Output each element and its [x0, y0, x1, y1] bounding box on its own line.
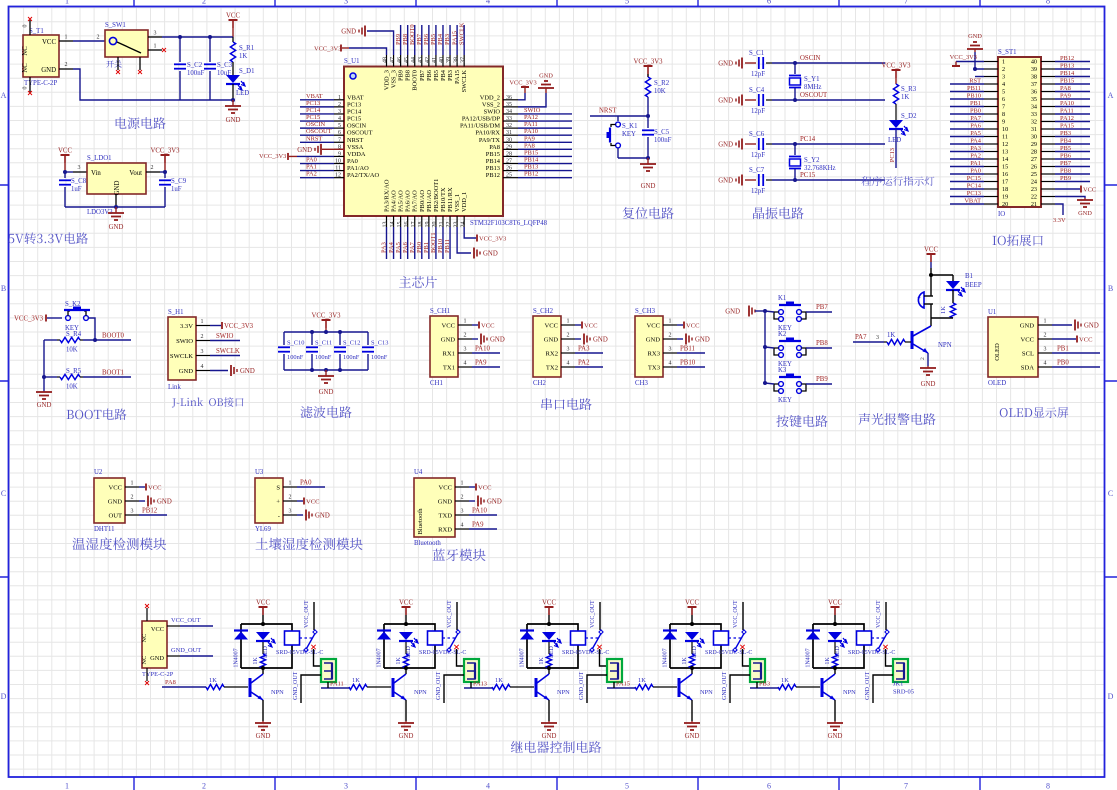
svg-text:2: 2	[567, 333, 570, 339]
svg-text:B: B	[1, 284, 6, 293]
svg-text:PC15: PC15	[800, 172, 816, 179]
svg-text:NRST: NRST	[306, 135, 322, 142]
relay LED resistor 1K (relay unit 4)	[691, 642, 693, 654]
display U1 OLED body	[988, 317, 1038, 377]
svg-text:PB13: PB13	[524, 164, 538, 171]
svg-text:GND_OUT: GND_OUT	[579, 671, 585, 700]
S_T1 pin 1 VCC stub	[59, 40, 73, 42]
svg-text:42: 42	[425, 57, 431, 63]
VCC power port (relay unit 3)	[545, 606, 554, 608]
alarm top rail	[931, 274, 953, 276]
svg-text:8: 8	[1002, 111, 1005, 118]
svg-text:PA6/AO: PA6/AO	[405, 190, 412, 212]
svg-text:S_ST1: S_ST1	[998, 49, 1017, 56]
svg-text:VCC: VCC	[42, 39, 56, 46]
svg-text:GND: GND	[718, 61, 733, 68]
svg-text:30: 30	[1031, 134, 1037, 141]
svg-text:VCC: VCC	[306, 499, 320, 506]
emitter ground (relay unit 2)	[405, 700, 407, 721]
svg-text:46: 46	[397, 57, 403, 63]
transistor NPN (relay unit 5)	[834, 668, 836, 674]
svg-text:PA10: PA10	[472, 508, 487, 515]
svg-text:VCC_3V3: VCC_3V3	[150, 148, 180, 155]
svg-text:S_CH2: S_CH2	[533, 308, 554, 315]
svg-text:GND: GND	[544, 336, 559, 343]
svg-text:S_C6: S_C6	[749, 131, 765, 138]
svg-text:PB2/BOOT1: PB2/BOOT1	[433, 179, 440, 212]
svg-text:PA0: PA0	[300, 480, 312, 487]
svg-text:PB12: PB12	[524, 171, 538, 178]
snubber bracket rails (relay unit 2)	[384, 624, 435, 668]
svg-text:SWIO: SWIO	[524, 107, 541, 114]
capacitor S_C10 100nF	[283, 332, 285, 345]
svg-text:PB1: PB1	[423, 242, 430, 253]
svg-text:VCC: VCC	[544, 322, 558, 329]
svg-text:S_K2: S_K2	[65, 301, 81, 308]
svg-text:GND: GND	[718, 178, 733, 185]
svg-text:PB11: PB11	[444, 239, 451, 253]
svg-text:BOOT1: BOOT1	[102, 370, 124, 377]
PA15 net label wire to next relay base	[607, 687, 635, 689]
relay switch blade (relay unit 4)	[742, 602, 744, 630]
svg-text:S_R5: S_R5	[66, 368, 82, 375]
caption soil moisture module	[256, 537, 363, 550]
svg-text:OLED: OLED	[988, 380, 1006, 387]
svg-text:1K: 1K	[396, 657, 402, 665]
svg-text:PA6: PA6	[970, 123, 981, 130]
svg-text:VBAT: VBAT	[306, 93, 323, 100]
svg-text:VCC_OUT: VCC_OUT	[304, 600, 310, 628]
svg-text:VBAT: VBAT	[964, 198, 981, 205]
svg-text:20: 20	[1002, 201, 1008, 208]
svg-text:VCC: VCC	[108, 484, 122, 491]
svg-text:PA15: PA15	[616, 681, 630, 688]
S_H1 pin 4 GND tag	[210, 370, 228, 372]
svg-text:PA0: PA0	[306, 157, 317, 164]
svg-text:2: 2	[65, 62, 68, 68]
S_SW1 bottom stubs with no-connect	[117, 57, 119, 70]
svg-text:PA1/AO: PA1/AO	[347, 165, 369, 172]
svg-text:19: 19	[1002, 194, 1008, 201]
svg-text:32: 32	[506, 123, 512, 129]
K2 net label wire PB8	[806, 347, 832, 349]
VSS_3 to GND tag wire	[367, 31, 394, 55]
svg-text:K3: K3	[778, 367, 787, 374]
S_H1 pin stubs	[196, 325, 210, 327]
svg-text:26: 26	[506, 166, 512, 172]
relay TYPE-C top pin no-connect	[146, 608, 148, 621]
svg-text:S_LDO1: S_LDO1	[87, 155, 112, 162]
svg-text:VCC: VCC	[685, 600, 699, 607]
svg-text:S_T1: S_T1	[29, 28, 44, 35]
svg-text:1K: 1K	[638, 677, 646, 684]
svg-text:4: 4	[486, 782, 490, 790]
svg-text:OSCOUT: OSCOUT	[306, 128, 332, 135]
relay coil SRD-05VDC-SL-C (relay unit 5)	[857, 631, 872, 645]
U4 pin 4 net PA9	[469, 528, 497, 530]
svg-text:27: 27	[506, 159, 512, 165]
svg-text:BEEP: BEEP	[965, 282, 982, 289]
relay LED (relay unit 2)	[399, 632, 413, 640]
svg-text:OSCIN: OSCIN	[306, 121, 326, 128]
svg-text:Vin: Vin	[91, 170, 101, 177]
svg-text:PA11/USB/DM: PA11/USB/DM	[460, 123, 500, 130]
OLED pin 4 PB0 label wire	[1052, 366, 1100, 368]
svg-text:PC15: PC15	[347, 116, 361, 123]
svg-text:VSS_1: VSS_1	[454, 194, 461, 212]
svg-text:SRD-05VDC-SL-C: SRD-05VDC-SL-C	[276, 650, 323, 656]
svg-text:SRD-05VDC-SL-C: SRD-05VDC-SL-C	[705, 650, 752, 656]
svg-text:Bluetooth: Bluetooth	[417, 508, 424, 535]
terminal lower wire and GND_OUT (relay unit 4)	[730, 675, 750, 703]
module U3 body	[255, 478, 283, 523]
VCC power port (relay unit 1)	[259, 606, 268, 608]
S_H1 pin 1 VCC_3V3	[210, 325, 221, 327]
svg-text:PB9: PB9	[816, 376, 828, 383]
svg-text:100nF: 100nF	[343, 354, 360, 361]
svg-text:PA7: PA7	[409, 241, 416, 253]
svg-text:1: 1	[131, 481, 134, 487]
svg-text:10: 10	[335, 159, 341, 165]
resistor S_R2 10K	[647, 74, 649, 77]
svg-text:VCC_OUT: VCC_OUT	[447, 600, 453, 628]
svg-text:NRST: NRST	[599, 108, 617, 115]
svg-text:GND_OUT: GND_OUT	[171, 647, 201, 654]
U3 pin 1 net PA0	[297, 486, 325, 488]
svg-text:RST: RST	[969, 78, 981, 85]
wire Vout to VCC_3V3	[160, 171, 165, 173]
svg-text:GND_OUT: GND_OUT	[293, 671, 299, 700]
svg-text:15: 15	[1002, 164, 1008, 171]
MCU S_U1 STM32F103C8T6 body	[344, 67, 503, 217]
CH1 RX net label wire	[472, 352, 500, 354]
svg-text:1: 1	[289, 481, 292, 487]
svg-text:CH2: CH2	[533, 380, 546, 387]
svg-text:GND: GND	[483, 251, 498, 258]
relay coil SRD-05VDC-SL-C (relay unit 1)	[285, 631, 300, 645]
svg-text:12pF: 12pF	[751, 152, 765, 159]
svg-text:21: 21	[439, 222, 445, 228]
svg-text:1: 1	[1044, 319, 1047, 325]
MCU bottom pins 13-24	[386, 216, 388, 227]
base resistor 1K (relay unit 5)	[778, 684, 796, 689]
svg-text:Vout: Vout	[129, 170, 142, 177]
svg-text:7: 7	[904, 782, 908, 790]
svg-text:PA5/AO: PA5/AO	[398, 190, 405, 212]
relay LED resistor 1K (relay unit 5)	[834, 642, 836, 654]
svg-text:RX2: RX2	[546, 350, 558, 357]
svg-text:1: 1	[669, 319, 672, 325]
svg-text:1N4007: 1N4007	[806, 648, 812, 667]
svg-text:1: 1	[338, 95, 341, 101]
svg-text:4: 4	[201, 364, 204, 370]
VSS_2 to GND earth (inverted)	[518, 93, 546, 107]
svg-text:3: 3	[289, 509, 292, 515]
svg-text:1K: 1K	[901, 94, 909, 101]
terminal lower wire and GND_OUT (relay unit 2)	[444, 675, 464, 703]
svg-text:U4: U4	[414, 469, 423, 476]
terminal lower wire and GND_OUT (relay unit 1)	[301, 675, 321, 703]
svg-text:22: 22	[1031, 194, 1037, 201]
svg-text:PA5: PA5	[395, 242, 402, 253]
svg-text:31: 31	[506, 130, 512, 136]
svg-text:GND: GND	[718, 142, 733, 149]
svg-text:S_D2: S_D2	[901, 113, 917, 120]
snubber bracket rails (relay unit 4)	[670, 624, 721, 668]
svg-text:SWIO: SWIO	[484, 108, 501, 115]
VCC power port alarm	[927, 253, 936, 255]
svg-text:1K: 1K	[539, 657, 545, 665]
alarm bottom rail	[931, 317, 953, 319]
svg-text:100nF: 100nF	[187, 70, 205, 77]
relay LED resistor 1K (relay unit 1)	[262, 642, 264, 654]
wire T1 GND down to bottom rail	[73, 69, 233, 100]
svg-text:OLED: OLED	[994, 343, 1001, 361]
svg-text:PA3: PA3	[970, 145, 981, 152]
svg-text:PB6: PB6	[426, 70, 433, 81]
MCU top net wires and labels	[400, 25, 402, 55]
svg-text:SWCLK: SWCLK	[170, 353, 193, 360]
svg-text:1N4007: 1N4007	[377, 648, 383, 667]
svg-text:VDD_3: VDD_3	[384, 70, 391, 90]
svg-text:0: 0	[23, 25, 29, 28]
junction dots on VCC rail	[178, 35, 182, 39]
svg-text:PA10: PA10	[524, 128, 538, 135]
emitter ground (relay unit 5)	[834, 700, 836, 721]
svg-text:22: 22	[446, 222, 452, 228]
svg-text:S_C9: S_C9	[171, 178, 187, 185]
svg-text:GND: GND	[685, 733, 700, 740]
BOOT0 net label wire	[83, 339, 131, 341]
svg-text:6: 6	[767, 0, 771, 6]
flyback diode 1N4007 (relay unit 5)	[806, 629, 820, 631]
PA8 base net label wire (relay unit 1)	[162, 686, 206, 688]
svg-text:PA9: PA9	[475, 360, 487, 367]
svg-text:PA8: PA8	[489, 144, 500, 151]
svg-text:NC: NC	[141, 656, 148, 665]
svg-text:SRD-05VDC-SL-C: SRD-05VDC-SL-C	[848, 650, 895, 656]
svg-text:1: 1	[65, 35, 68, 41]
svg-text:LED: LED	[888, 137, 901, 144]
resistor S_R3 1K	[893, 84, 898, 104]
svg-text:38: 38	[1031, 74, 1037, 81]
svg-text:OSCIN: OSCIN	[347, 123, 367, 130]
svg-text:SWCLK: SWCLK	[458, 22, 465, 45]
GND_OUT label wire	[167, 655, 180, 657]
svg-text:3: 3	[344, 782, 348, 790]
svg-text:PB13: PB13	[1060, 63, 1074, 70]
flyback diode 1N4007 (relay unit 3)	[520, 629, 534, 631]
emitter ground (relay unit 1)	[262, 700, 264, 721]
svg-text:PA5: PA5	[970, 130, 981, 137]
flyback diode 1N4007 (relay unit 1)	[234, 629, 248, 631]
svg-text:6: 6	[767, 782, 771, 790]
terminal block (relay unit 5)	[893, 659, 908, 682]
svg-text:1N4007: 1N4007	[663, 648, 669, 667]
svg-text:17: 17	[411, 222, 417, 228]
svg-text:10K: 10K	[66, 347, 78, 354]
svg-text:100nF: 100nF	[287, 354, 304, 361]
svg-text:1: 1	[154, 44, 157, 50]
capacitor S_C4 12pF with GND tag, OSCOUT	[741, 95, 743, 106]
svg-text:1uF: 1uF	[71, 186, 82, 193]
switch to terminal wire (relay unit 4)	[743, 649, 751, 666]
svg-text:VDD_2: VDD_2	[480, 94, 500, 101]
svg-text:3: 3	[464, 347, 467, 353]
svg-text:GND_OUT: GND_OUT	[436, 671, 442, 700]
svg-text:+: +	[917, 294, 921, 302]
caption relay control circuit	[511, 741, 601, 753]
svg-text:TX3: TX3	[648, 364, 661, 371]
junction dot bottom rail	[231, 98, 235, 102]
header S_H1 J-Link body	[168, 317, 196, 380]
CH3 TX net label wire	[677, 366, 705, 368]
svg-text:VCC_3V3: VCC_3V3	[314, 46, 341, 53]
svg-text:10K: 10K	[66, 384, 78, 391]
snubber bracket rails (relay unit 5)	[813, 624, 864, 668]
K3 net label wire PB9	[806, 383, 832, 385]
relay switch blade (relay unit 5)	[885, 602, 887, 630]
switch to terminal wire (relay unit 5)	[886, 649, 894, 666]
caption IO expansion port	[993, 235, 1043, 247]
svg-text:4: 4	[1044, 361, 1047, 367]
S_SW1 pin 3 stub	[148, 36, 162, 38]
svg-text:2: 2	[201, 334, 204, 340]
caption alarm circuit	[859, 413, 936, 425]
svg-text:S_D1: S_D1	[239, 68, 255, 75]
svg-text:2: 2	[461, 495, 464, 501]
svg-text:VCC: VCC	[226, 13, 240, 20]
relay coil SRD-05VDC-SL-C (relay unit 3)	[571, 631, 586, 645]
svg-text:4: 4	[338, 116, 341, 122]
CH2 TX net label wire	[575, 366, 603, 368]
S_H1 pin 2 SWIO label	[210, 340, 240, 342]
ground of power circuit	[232, 100, 234, 106]
terminal block (relay unit 1)	[321, 659, 336, 682]
svg-text:PA9: PA9	[472, 522, 484, 529]
svg-text:10K: 10K	[654, 88, 666, 95]
svg-text:0: 0	[23, 87, 29, 90]
svg-text:GND: GND	[593, 337, 608, 344]
svg-text:25: 25	[506, 173, 512, 179]
header CH3 body	[635, 316, 663, 377]
BOOT1 net label wire	[83, 376, 131, 378]
relay switch blade (relay unit 2)	[456, 602, 458, 630]
svg-text:PA3: PA3	[381, 242, 388, 253]
svg-text:K2: K2	[778, 331, 787, 338]
U2 pin 3 net PB12	[139, 514, 167, 516]
PA13 net label wire to next relay base	[464, 687, 492, 689]
svg-text:SRD-05VDC-SL-C: SRD-05VDC-SL-C	[419, 650, 466, 656]
svg-text:24: 24	[1031, 179, 1037, 186]
svg-text:PB7: PB7	[416, 33, 423, 45]
K3 wire to trunk	[765, 383, 774, 384]
capacitor S_C9 1uF	[164, 172, 166, 178]
S_H1 pin 3 SWCLK label	[210, 355, 240, 357]
svg-text:TX2: TX2	[546, 364, 558, 371]
svg-text:OSCOUT: OSCOUT	[347, 130, 373, 137]
push button S_K2	[66, 316, 71, 321]
svg-text:PA15: PA15	[451, 31, 458, 45]
CH2 RX net label wire	[575, 352, 603, 354]
svg-text:GND: GND	[441, 336, 456, 343]
base resistor 1K (relay unit 1)	[206, 684, 224, 689]
svg-text:37: 37	[460, 57, 466, 63]
push button K3	[779, 382, 784, 387]
svg-text:C: C	[1108, 489, 1113, 498]
relay LED (relay unit 3)	[542, 632, 556, 640]
svg-text:SCL: SCL	[1022, 350, 1034, 357]
svg-text:GND: GND	[542, 733, 557, 740]
svg-text:VBAT: VBAT	[347, 94, 364, 101]
OLED pin 1 GND tag	[1052, 324, 1072, 326]
svg-text:PB15: PB15	[524, 149, 538, 156]
svg-text:S_C1: S_C1	[749, 50, 764, 57]
crystal S_Y2 32.768KHz	[793, 142, 797, 146]
relay LED resistor 1K (relay unit 2)	[405, 642, 407, 654]
U3 pin 2 VCC power	[297, 500, 303, 502]
svg-text:GND: GND	[341, 29, 356, 36]
svg-text:D: D	[1108, 692, 1114, 701]
svg-text:GND: GND	[921, 381, 936, 388]
svg-text:DHT11: DHT11	[94, 526, 115, 533]
svg-text:7: 7	[904, 0, 908, 6]
S_T1 bottom pin 0 with no-connect	[29, 77, 31, 92]
base resistor 1K (relay unit 3)	[492, 684, 510, 689]
svg-text:PA4/AO: PA4/AO	[391, 190, 398, 212]
svg-text:SWCLK: SWCLK	[216, 348, 240, 355]
svg-text:29: 29	[506, 144, 512, 150]
svg-text:PB12: PB12	[1060, 55, 1074, 62]
relay LED resistor 1K (relay unit 3)	[548, 642, 550, 654]
svg-text:PA0: PA0	[970, 168, 981, 175]
svg-text:GND: GND	[37, 402, 52, 409]
svg-text:VCC: VCC	[58, 148, 72, 155]
svg-text:1K: 1K	[940, 306, 947, 314]
svg-text:GND: GND	[108, 498, 123, 505]
svg-text:NPN: NPN	[843, 689, 856, 696]
transistor Q NPN alarm	[930, 318, 932, 326]
svg-text:3.3V: 3.3V	[1053, 217, 1066, 224]
svg-text:SWCLK: SWCLK	[461, 70, 468, 93]
svg-text:23: 23	[453, 222, 459, 228]
svg-text:2: 2	[202, 0, 206, 6]
svg-text:S_C5: S_C5	[654, 129, 670, 136]
svg-text:S_CH1: S_CH1	[430, 308, 450, 315]
svg-text:GND_OUT: GND_OUT	[722, 671, 728, 700]
relay coil SRD-05VDC-SL-C (relay unit 4)	[714, 631, 729, 645]
U2 pin 1 VCC power	[139, 486, 145, 488]
filter top rail	[284, 331, 368, 333]
capacitor S_C5 100nF	[647, 116, 649, 128]
svg-text:3: 3	[131, 509, 134, 515]
svg-text:PA7: PA7	[855, 334, 867, 341]
svg-text:1: 1	[1002, 59, 1005, 66]
svg-text:10: 10	[1002, 126, 1008, 133]
switch to terminal wire (relay unit 1)	[314, 649, 322, 666]
svg-text:PA11: PA11	[1060, 108, 1074, 115]
base resistor 1K (relay unit 4)	[635, 684, 653, 689]
svg-text:VCC: VCC	[1083, 187, 1096, 194]
svg-text:PB8: PB8	[816, 340, 828, 347]
svg-text:PA7/AO: PA7/AO	[412, 190, 419, 212]
K1 wire to trunk	[765, 311, 774, 312]
svg-text:2: 2	[1002, 66, 1005, 73]
svg-text:PA2: PA2	[970, 153, 981, 160]
transistor NPN (relay unit 2)	[405, 668, 407, 674]
svg-text:2: 2	[202, 782, 206, 790]
svg-text:OSCOUT: OSCOUT	[800, 92, 828, 99]
